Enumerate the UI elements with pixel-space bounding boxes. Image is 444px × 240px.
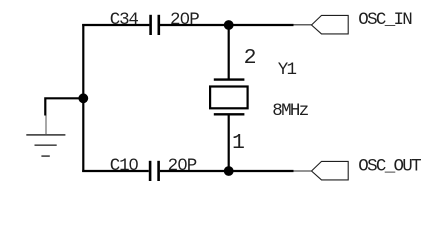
label C10 <box>110 156 139 176</box>
junction node bottom <box>224 166 234 176</box>
junction node ground tap <box>78 93 88 103</box>
junction node top <box>224 20 234 30</box>
svg-text:Y1: Y1 <box>278 60 297 80</box>
capacitor C34 <box>151 15 159 35</box>
capacitor C10 <box>150 161 159 181</box>
wire bottom right horizontal <box>160 170 294 172</box>
svg-text:20P: 20P <box>168 156 197 176</box>
label 20P (bottom) <box>168 156 197 176</box>
svg-text:OSC_OUT: OSC_OUT <box>358 156 421 176</box>
wire ground stub <box>45 97 83 115</box>
svg-text:C34: C34 <box>110 10 139 30</box>
wire bottom left horizontal <box>82 170 149 172</box>
svg-text:2: 2 <box>244 46 257 70</box>
ground <box>26 116 65 157</box>
port flag OSC_OUT <box>312 161 349 180</box>
crystal Y1 <box>210 24 248 172</box>
svg-text:OSC_IN: OSC_IN <box>358 10 412 30</box>
wire top right horizontal <box>160 24 294 26</box>
svg-text:C10: C10 <box>110 156 139 176</box>
svg-text:8MHz: 8MHz <box>272 101 308 121</box>
wire top thin lead to port <box>294 24 312 26</box>
wire top left horizontal <box>82 24 149 26</box>
svg-text:1: 1 <box>232 131 245 155</box>
svg-text:20P: 20P <box>170 10 199 30</box>
wire bottom thin lead to port <box>294 170 312 172</box>
port flag OSC_IN <box>312 15 349 34</box>
label 20P (top) <box>170 10 199 30</box>
wire left vertical <box>82 24 84 172</box>
